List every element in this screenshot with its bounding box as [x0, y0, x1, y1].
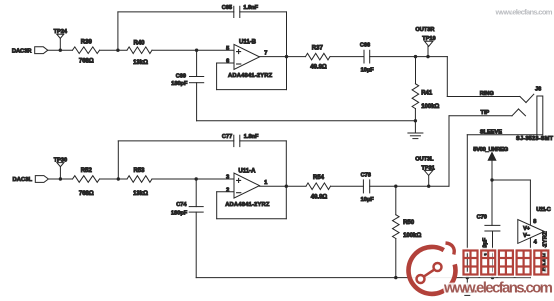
svg-text:13kΩ: 13kΩ: [133, 191, 148, 197]
junction R41 bottom node: [414, 119, 417, 122]
svg-text:SJ-3523-SMT: SJ-3523-SMT: [516, 136, 554, 142]
resistor R53 13k: [127, 168, 152, 197]
jack J6 tip contact: [512, 109, 526, 116]
wire C69 bottom to R41 bottom node: [197, 120, 416, 122]
watermark text dianzi fashaoyou (CJK): [464, 251, 549, 275]
junction TP30 node: [59, 177, 62, 180]
svg-text:J6: J6: [535, 87, 541, 93]
svg-text:www.elecfans.com: www.elecfans.com: [443, 280, 553, 297]
svg-text:1: 1: [264, 180, 267, 186]
svg-text:R50: R50: [403, 220, 415, 226]
capacitor C65 1.8nF: [222, 5, 259, 18]
svg-text:SLEEVE: SLEEVE: [480, 129, 502, 135]
svg-text:TIP: TIP: [481, 110, 490, 116]
svg-text:2: 2: [226, 187, 229, 193]
wire ground rail bottom: [196, 277, 530, 279]
svg-text:ADA4841-2YRZ: ADA4841-2YRZ: [225, 202, 270, 208]
svg-text:RING: RING: [480, 91, 494, 97]
svg-text:768Ω: 768Ω: [79, 58, 94, 64]
svg-text:C77: C77: [222, 134, 232, 140]
svg-text:7: 7: [264, 50, 267, 56]
wire C66 to jack corner: [370, 56, 448, 58]
junction R50 bottom rail: [394, 276, 397, 279]
junction C74 tap: [195, 177, 198, 180]
svg-text:1.8nF: 1.8nF: [244, 134, 259, 140]
test point TP19 / node OUT3R: [415, 27, 435, 57]
wire feedback C65 loop: up from R39/R40 node, across, down to output: [117, 12, 119, 50]
ground bottom rail: [460, 278, 475, 296]
wire R53 to U11-A pin3: [152, 178, 234, 180]
svg-text:6: 6: [226, 59, 229, 65]
svg-text:C70: C70: [477, 214, 487, 220]
capacitor C69 180pF: [171, 50, 203, 121]
svg-text:10μF: 10μF: [361, 197, 375, 203]
svg-text:R39: R39: [81, 39, 93, 45]
svg-text:ADA4841-2YRZ: ADA4841-2YRZ: [228, 73, 273, 79]
svg-text:R52: R52: [81, 168, 93, 174]
junction sleeve rail: [466, 276, 469, 279]
junction R50 tap: [394, 185, 397, 188]
op-amp U11-B ADA4841-2YRZ: [226, 40, 273, 79]
connector DAC3L: [13, 176, 49, 184]
svg-text:13kΩ: 13kΩ: [133, 60, 148, 66]
op-amp U11-A ADA4841-2YRZ: [225, 169, 270, 209]
capacitor C70 0.10uF: [477, 180, 500, 278]
capacitor C74 180pF: [171, 179, 203, 278]
junction TP24/DAC3R node: [59, 49, 62, 52]
junction TP31 tap: [427, 185, 430, 188]
wire R37 to C66: [330, 56, 364, 58]
wire R39 to R40: [100, 49, 128, 51]
svg-text:49.9Ω: 49.9Ω: [310, 65, 327, 71]
svg-text:U11-C: U11-C: [536, 207, 551, 213]
svg-text:100kΩ: 100kΩ: [403, 233, 421, 239]
test point TP31 / node OUT3L: [415, 157, 434, 187]
junction C69 tap: [195, 49, 198, 52]
svg-text:C78: C78: [361, 172, 371, 178]
svg-text:U11-A: U11-A: [238, 169, 256, 175]
svg-text:1.8nF: 1.8nF: [243, 5, 258, 11]
capacitor C66 10uF: [360, 42, 374, 73]
svg-text:DAC3R: DAC3R: [12, 48, 32, 54]
svg-text:C66: C66: [360, 42, 370, 48]
ground under R41: [408, 121, 423, 139]
wire R54 to C78: [331, 185, 364, 187]
svg-text:5V00_UNREG: 5V00_UNREG: [473, 147, 508, 153]
capacitor C78 10uF: [361, 172, 375, 203]
svg-text:V+: V+: [523, 226, 530, 232]
junction C70 bottom rail: [491, 276, 494, 279]
svg-text:C65: C65: [222, 5, 232, 11]
wire DAC3R to R39: [48, 49, 73, 51]
connector J6 SJ-3523-SMT body: [516, 87, 554, 143]
svg-text:49.9Ω: 49.9Ω: [311, 195, 328, 201]
junction U11-B output node: [285, 55, 288, 58]
wire feedback C77 loop: [118, 141, 286, 186]
test point TP30: [54, 158, 67, 179]
resistor R41 100k: [412, 57, 439, 121]
svg-text:8: 8: [533, 219, 536, 225]
svg-text:768Ω: 768Ω: [79, 191, 94, 197]
svg-text:OUT3L: OUT3L: [415, 157, 434, 163]
connector DAC3R: [12, 47, 48, 55]
svg-text:R54: R54: [313, 175, 325, 181]
svg-text:R37: R37: [312, 45, 324, 51]
op-amp power pins U11-C ADA4841-2YRZ: [518, 207, 551, 278]
svg-text:100kΩ: 100kΩ: [421, 104, 439, 110]
power symbol 5V00_UNREG: [473, 147, 508, 180]
svg-text:www.elecfans.com: www.elecfans.com: [495, 8, 553, 17]
svg-text:R53: R53: [133, 168, 145, 174]
svg-text:C74: C74: [176, 202, 187, 208]
wire feedback pin6 loop: [217, 57, 287, 90]
wire feedback pin2 loop: [217, 186, 287, 219]
resistor R39 768ohm: [73, 39, 100, 64]
svg-text:180pF: 180pF: [171, 210, 188, 216]
svg-text:DAC3L: DAC3L: [13, 177, 33, 183]
resistor R37 49.9ohm: [306, 45, 331, 70]
jack J6 ring contact: [520, 94, 534, 102]
svg-text:V−: V−: [523, 233, 530, 239]
wire C78 to TIP corner: [370, 185, 449, 187]
wire 5V to U11-C V+: [492, 180, 530, 225]
svg-text:10μF: 10μF: [361, 67, 375, 73]
junction TP19 tap: [426, 55, 429, 58]
svg-text:5: 5: [226, 46, 229, 52]
junction node feedback C65 tap: [116, 49, 119, 52]
junction U11-A output node: [285, 185, 288, 188]
resistor R40 13k: [127, 40, 152, 66]
junction 5V node: [490, 178, 493, 181]
wire DAC3L to R52: [48, 178, 72, 180]
wire SLEEVE branch: [467, 135, 537, 278]
svg-text:R41: R41: [421, 91, 433, 97]
svg-text:3: 3: [226, 175, 229, 181]
resistor R52 768ohm: [73, 168, 100, 197]
resistor R54 49.9ohm: [306, 175, 331, 200]
wire R40 to U11-B pin5: [152, 49, 234, 51]
junction R41 tap: [414, 55, 417, 58]
wire U11-A output: [260, 185, 307, 187]
wire U11-B output: [260, 56, 306, 58]
svg-text:C69: C69: [176, 73, 186, 79]
wire RING branch: [447, 57, 520, 97]
wire TIP branch: [449, 116, 512, 186]
svg-text:180pF: 180pF: [171, 81, 188, 87]
svg-text:U11-B: U11-B: [239, 40, 257, 46]
capacitor C77 1.8nF: [222, 134, 259, 147]
wire R52 to R53: [100, 178, 128, 180]
svg-text:R40: R40: [133, 40, 145, 46]
svg-text:OUT3R: OUT3R: [415, 27, 434, 33]
resistor R50 100k: [393, 186, 422, 277]
watermark logo circle bottom right: [408, 243, 455, 294]
test point TP24: [54, 29, 68, 50]
junction feedback C77 tap: [117, 177, 120, 180]
